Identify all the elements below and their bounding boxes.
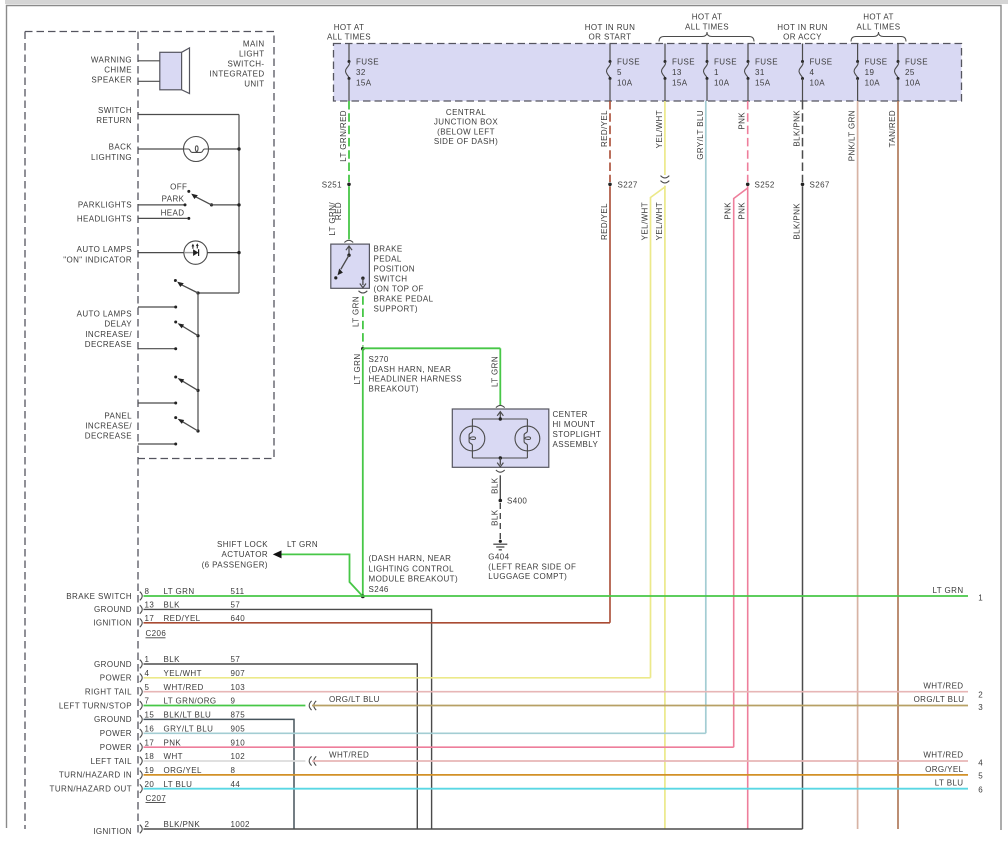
svg-text:19: 19 xyxy=(145,766,155,775)
svg-text:15: 15 xyxy=(145,711,155,720)
svg-text:AUTO LAMPS: AUTO LAMPS xyxy=(77,245,132,254)
svg-text:SWITCH: SWITCH xyxy=(98,106,132,115)
svg-text:RIGHT TAIL: RIGHT TAIL xyxy=(85,688,132,697)
page top gray strip xyxy=(0,0,1008,4)
svg-text:15A: 15A xyxy=(755,79,771,88)
svg-text:(ON TOP OF: (ON TOP OF xyxy=(374,285,424,294)
svg-text:8: 8 xyxy=(231,766,236,775)
svg-text:1: 1 xyxy=(978,594,983,603)
wire WHT/RED to connector 4 xyxy=(312,760,968,762)
connector arc out of brake pedal switch xyxy=(359,291,368,293)
svg-text:10A: 10A xyxy=(905,79,921,88)
svg-text:57: 57 xyxy=(231,601,241,610)
wire LT GRN 511 to connector 1 xyxy=(144,595,969,597)
junction xyxy=(237,203,240,206)
svg-text:HOT IN RUN: HOT IN RUN xyxy=(777,23,828,32)
fuse 31 15A xyxy=(747,44,749,62)
switch bus vertical xyxy=(197,293,199,431)
wire BLK 57 (pin 1) xyxy=(144,664,418,829)
svg-text:44: 44 xyxy=(231,780,241,789)
wire PNK branch left xyxy=(734,186,748,747)
pin 4 power xyxy=(140,674,142,683)
svg-text:4: 4 xyxy=(978,758,983,767)
junction xyxy=(237,251,240,254)
wire RED/YEL (S227 down to pin 17 C206) xyxy=(609,186,611,623)
bulb loop wiring xyxy=(472,418,527,420)
wire BLK 57 xyxy=(144,609,432,829)
wire GRY/LT BLU 905 xyxy=(144,732,706,734)
svg-text:ALL TIMES: ALL TIMES xyxy=(685,23,729,32)
svg-text:WHT/RED: WHT/RED xyxy=(923,682,963,691)
fuse 4 10A xyxy=(802,44,804,62)
svg-text:WHT/RED: WHT/RED xyxy=(923,750,963,759)
svg-text:RED/YEL: RED/YEL xyxy=(164,614,201,623)
svg-text:IGNITION: IGNITION xyxy=(93,827,132,836)
svg-text:INTEGRATED: INTEGRATED xyxy=(210,69,265,78)
svg-text:GROUND: GROUND xyxy=(94,715,132,724)
svg-text:S227: S227 xyxy=(618,180,638,189)
switch arm 0 xyxy=(196,291,199,294)
svg-text:SWITCH-: SWITCH- xyxy=(227,59,264,68)
svg-text:103: 103 xyxy=(231,683,246,692)
svg-text:FUSE: FUSE xyxy=(810,58,833,67)
wire LT BLU 44 to connector 6 xyxy=(144,788,969,790)
central junction box (fuse box) xyxy=(334,44,962,102)
wire LT GRN dashed (brake switch to S270) xyxy=(362,296,364,346)
svg-text:(DASH HARN, NEAR: (DASH HARN, NEAR xyxy=(369,365,452,374)
pin 17 ignition xyxy=(140,619,142,628)
svg-text:910: 910 xyxy=(231,738,246,747)
svg-text:IGNITION: IGNITION xyxy=(93,619,132,628)
svg-text:MODULE BREAKOUT): MODULE BREAKOUT) xyxy=(369,575,459,584)
svg-text:AUTO LAMPS: AUTO LAMPS xyxy=(77,309,132,318)
svg-text:BACK: BACK xyxy=(109,143,133,152)
svg-text:S267: S267 xyxy=(810,180,830,189)
svg-text:BLK/PNK: BLK/PNK xyxy=(793,110,802,147)
svg-text:S251: S251 xyxy=(322,180,342,189)
svg-text:HI MOUNT: HI MOUNT xyxy=(553,420,596,429)
svg-text:MAIN: MAIN xyxy=(243,39,265,48)
svg-text:FUSE: FUSE xyxy=(672,58,695,67)
svg-text:6: 6 xyxy=(978,786,983,795)
svg-text:FUSE: FUSE xyxy=(714,58,737,67)
wire BLK (stoplight to S400) xyxy=(499,475,501,499)
svg-text:31: 31 xyxy=(755,68,765,77)
svg-text:(LEFT REAR SIDE OF: (LEFT REAR SIDE OF xyxy=(488,562,576,571)
svg-text:WHT/RED: WHT/RED xyxy=(164,683,204,692)
wire RED/YEL dashed (fuse 5 to S227) xyxy=(609,101,611,182)
svg-text:DELAY: DELAY xyxy=(104,320,132,329)
svg-text:HOT AT: HOT AT xyxy=(692,13,723,22)
connector arc into stoplight assembly xyxy=(496,405,505,407)
pin 17 power xyxy=(140,743,142,752)
svg-text:LT BLU: LT BLU xyxy=(935,779,964,788)
svg-text:BLK: BLK xyxy=(490,477,499,494)
splice S270 xyxy=(361,347,365,351)
svg-text:CENTRAL: CENTRAL xyxy=(446,108,486,117)
wire BLK/PNK dashed (fuse 4 to S267) xyxy=(802,101,804,182)
svg-text:5: 5 xyxy=(617,68,622,77)
svg-text:HEADLINER HARNESS: HEADLINER HARNESS xyxy=(369,375,463,384)
svg-text:TURN/HAZARD OUT: TURN/HAZARD OUT xyxy=(50,785,132,794)
svg-text:RED/YEL: RED/YEL xyxy=(600,203,609,240)
svg-text:CHIME: CHIME xyxy=(104,66,132,75)
svg-text:BRAKE PEDAL: BRAKE PEDAL xyxy=(374,295,434,304)
svg-text:OR START: OR START xyxy=(589,33,632,42)
svg-text:YEL/WHT: YEL/WHT xyxy=(641,202,650,240)
svg-text:LIGHT: LIGHT xyxy=(239,49,265,58)
svg-text:PEDAL: PEDAL xyxy=(374,255,402,264)
svg-text:1: 1 xyxy=(145,655,150,664)
LED emission arrows xyxy=(192,245,194,249)
svg-text:LT GRN/RED: LT GRN/RED xyxy=(339,110,348,162)
wire headlights xyxy=(138,217,187,219)
wire PNK 910 xyxy=(144,746,734,748)
pin 7 left turn/stop xyxy=(140,701,142,710)
svg-text:BLK/PNK: BLK/PNK xyxy=(164,820,201,829)
switch pivot xyxy=(210,203,213,206)
svg-text:9: 9 xyxy=(231,697,236,706)
pin 15 ground xyxy=(140,715,142,724)
wire PNK straight to bottom xyxy=(747,186,749,829)
svg-text:SIDE OF DASH): SIDE OF DASH) xyxy=(434,137,498,146)
svg-text:STOPLIGHT: STOPLIGHT xyxy=(553,430,602,439)
svg-text:FUSE: FUSE xyxy=(356,58,379,67)
svg-text:SHIFT LOCK: SHIFT LOCK xyxy=(217,540,268,549)
LED auto lamps on indicator xyxy=(138,252,184,254)
splice S267 xyxy=(801,183,805,187)
svg-text:RED/YEL: RED/YEL xyxy=(600,110,609,147)
svg-text:SUPPORT): SUPPORT) xyxy=(374,305,418,314)
svg-text:BREAKOUT): BREAKOUT) xyxy=(369,384,419,393)
switch arm xyxy=(196,389,199,392)
warning chime speaker xyxy=(160,52,182,90)
svg-text:3: 3 xyxy=(978,703,983,712)
svg-text:15A: 15A xyxy=(672,79,688,88)
svg-text:BLK/LT BLU: BLK/LT BLU xyxy=(164,711,212,720)
svg-text:ORG/YEL: ORG/YEL xyxy=(164,766,203,775)
wire LT GRN/RED solid (S251 to brake pedal switch) xyxy=(348,186,350,239)
fuse 13 15A xyxy=(664,44,666,62)
svg-text:PANEL: PANEL xyxy=(104,411,132,420)
svg-text:4: 4 xyxy=(145,669,150,678)
bulb left filament loop xyxy=(469,437,475,440)
svg-text:LT GRN: LT GRN xyxy=(490,356,499,387)
pin 20 turn/hazard out xyxy=(140,784,142,793)
svg-text:8: 8 xyxy=(145,587,150,596)
svg-text:LT GRN: LT GRN xyxy=(351,296,360,327)
svg-text:POWER: POWER xyxy=(100,729,132,738)
svg-text:ORG/YEL: ORG/YEL xyxy=(925,765,964,774)
svg-text:ORG/LT BLU: ORG/LT BLU xyxy=(329,695,380,704)
svg-text:POSITION: POSITION xyxy=(374,265,415,274)
splice S227 xyxy=(608,183,612,187)
arrowhead up xyxy=(497,412,503,416)
LCM left dashed boundary xyxy=(24,32,26,830)
wire BLK dashed (S400 to ground) xyxy=(499,503,501,539)
svg-text:WHT: WHT xyxy=(164,752,183,761)
svg-text:PNK: PNK xyxy=(724,202,733,220)
arrowhead down xyxy=(360,284,366,288)
svg-text:C207: C207 xyxy=(146,794,167,803)
svg-text:5: 5 xyxy=(145,683,150,692)
switch arm xyxy=(341,255,349,269)
svg-text:10A: 10A xyxy=(617,79,633,88)
svg-text:HOT AT: HOT AT xyxy=(863,13,894,22)
svg-text:PARK: PARK xyxy=(162,195,185,204)
svg-text:GROUND: GROUND xyxy=(94,660,132,669)
fuse 1 10A xyxy=(706,44,708,62)
arrow to shift lock actuator xyxy=(273,550,282,558)
splice S251 xyxy=(347,183,351,187)
svg-text:(DASH HARN, NEAR: (DASH HARN, NEAR xyxy=(369,554,452,563)
wire PNK dashed (fuse 31 to S252) xyxy=(747,101,749,182)
svg-text:WHT/RED: WHT/RED xyxy=(329,751,369,760)
svg-text:GRY/LT BLU: GRY/LT BLU xyxy=(164,725,214,734)
svg-text:2: 2 xyxy=(978,690,983,699)
svg-text:S252: S252 xyxy=(755,180,775,189)
svg-text:875: 875 xyxy=(231,711,246,720)
wire speaker bottom lead xyxy=(138,80,160,82)
svg-text:TURN/HAZARD IN: TURN/HAZARD IN xyxy=(59,771,132,780)
svg-text:SPEAKER: SPEAKER xyxy=(91,76,132,85)
svg-text:BLK: BLK xyxy=(490,509,499,526)
svg-text:13: 13 xyxy=(145,601,155,610)
svg-text:15A: 15A xyxy=(356,79,372,88)
connector arc into brake pedal switch xyxy=(344,240,353,242)
svg-text:PARKLIGHTS: PARKLIGHTS xyxy=(78,201,132,210)
svg-text:BRAKE SWITCH: BRAKE SWITCH xyxy=(66,592,132,601)
wire ORG/YEL 8 to connector 5 xyxy=(144,774,969,776)
svg-text:18: 18 xyxy=(145,752,155,761)
svg-text:LT BLU: LT BLU xyxy=(164,780,193,789)
svg-text:BLK/PNK: BLK/PNK xyxy=(793,203,802,240)
svg-text:PNK: PNK xyxy=(164,738,182,747)
svg-text:JUNCTION BOX: JUNCTION BOX xyxy=(434,118,499,127)
svg-text:16: 16 xyxy=(145,725,155,734)
pin 5 right tail xyxy=(140,687,142,696)
bus elbow xyxy=(198,292,239,294)
splice arc xyxy=(309,756,311,765)
svg-text:HEADLIGHTS: HEADLIGHTS xyxy=(77,215,132,224)
svg-text:GROUND: GROUND xyxy=(94,605,132,614)
splice arc xyxy=(314,701,316,710)
svg-text:POWER: POWER xyxy=(100,674,132,683)
arrowhead down xyxy=(497,463,503,467)
svg-text:511: 511 xyxy=(231,587,245,596)
svg-text:LT GRN: LT GRN xyxy=(353,354,362,385)
svg-text:ACTUATOR: ACTUATOR xyxy=(222,550,268,559)
splice S400 xyxy=(499,499,503,503)
wire YEL/WHT (fuse 13 down) xyxy=(664,101,666,175)
svg-text:FUSE: FUSE xyxy=(755,58,778,67)
wire LT GRN/RED dashed (fuse 32 to S251) xyxy=(348,101,350,182)
svg-text:LEFT TURN/STOP: LEFT TURN/STOP xyxy=(59,701,132,710)
wire PNK/LT GRN (fuse 19 to bottom) xyxy=(857,101,859,829)
junction xyxy=(237,147,240,150)
switch arm xyxy=(196,429,199,432)
wire LT GRN vertical (S270 to S246) xyxy=(362,349,364,597)
svg-text:907: 907 xyxy=(231,669,246,678)
arrowhead up xyxy=(346,246,352,250)
svg-text:20: 20 xyxy=(145,780,155,789)
svg-text:LIGHTING CONTROL: LIGHTING CONTROL xyxy=(369,564,455,573)
svg-text:32: 32 xyxy=(356,68,366,77)
pin 16 power xyxy=(140,729,142,738)
contact xyxy=(334,276,337,279)
bulb right filament dip xyxy=(524,419,527,458)
svg-text:ALL TIMES: ALL TIMES xyxy=(327,33,371,42)
pin 13 ground xyxy=(140,605,142,614)
pin 18 left tail xyxy=(140,757,142,766)
svg-text:HOT AT: HOT AT xyxy=(334,23,365,32)
svg-text:C206: C206 xyxy=(146,629,167,638)
OFF contact xyxy=(187,190,190,193)
brace xyxy=(851,32,906,42)
svg-text:DECREASE: DECREASE xyxy=(85,432,132,441)
splice S252 xyxy=(746,183,750,187)
svg-text:GRY/LT BLU: GRY/LT BLU xyxy=(696,110,705,160)
svg-text:LT GRN: LT GRN xyxy=(287,540,318,549)
svg-text:CENTER: CENTER xyxy=(553,410,588,419)
svg-text:RETURN: RETURN xyxy=(96,116,132,125)
svg-text:SWITCH: SWITCH xyxy=(374,275,408,284)
svg-text:LEFT TAIL: LEFT TAIL xyxy=(91,757,133,766)
svg-text:LT GRN: LT GRN xyxy=(164,587,195,596)
svg-text:S246: S246 xyxy=(369,585,389,594)
wire BLK/PNK 1002 xyxy=(144,828,803,830)
svg-text:OFF: OFF xyxy=(170,182,187,191)
svg-text:7: 7 xyxy=(145,697,150,706)
ground G404 symbol xyxy=(493,543,507,545)
wire RED/YEL 640 xyxy=(144,622,611,624)
svg-text:OR ACCY: OR ACCY xyxy=(783,33,822,42)
svg-text:YEL/WHT: YEL/WHT xyxy=(655,202,664,240)
svg-text:YEL/WHT: YEL/WHT xyxy=(164,669,202,678)
lamp filament dip xyxy=(184,149,209,152)
wire WHT/RED 103 to connector 2 xyxy=(144,691,969,693)
svg-text:PNK: PNK xyxy=(738,202,747,220)
svg-text:"ON" INDICATOR: "ON" INDICATOR xyxy=(63,256,132,265)
svg-text:TAN/RED: TAN/RED xyxy=(888,110,897,147)
wire switch return xyxy=(138,114,239,116)
svg-text:LUGGAGE COMPT): LUGGAGE COMPT) xyxy=(488,572,567,581)
svg-text:10A: 10A xyxy=(714,79,730,88)
connector arc out of stoplight assembly xyxy=(496,470,505,472)
wire LT GRN/ORG 9 xyxy=(144,705,306,707)
fuse 19 10A xyxy=(857,44,859,62)
svg-text:BLK: BLK xyxy=(164,655,181,664)
pin 19 turn/hazard in xyxy=(140,771,142,780)
svg-text:LT GRN: LT GRN xyxy=(933,586,964,595)
svg-text:DECREASE: DECREASE xyxy=(85,340,132,349)
svg-text:17: 17 xyxy=(145,614,155,623)
bulb right filament loop xyxy=(524,437,530,440)
wire ORG/LT BLU to connector 3 xyxy=(312,705,968,707)
svg-text:4: 4 xyxy=(810,68,815,77)
svg-text:10A: 10A xyxy=(865,79,881,88)
splice arcs xyxy=(661,176,670,178)
svg-text:INCREASE/: INCREASE/ xyxy=(85,421,132,430)
svg-text:BRAKE: BRAKE xyxy=(374,245,403,254)
wire BLK/LT BLU 875 xyxy=(144,719,295,829)
fuse 25 10A xyxy=(897,44,899,62)
wire TAN/RED (fuse 25 to bottom) xyxy=(897,101,899,829)
svg-text:HEAD: HEAD xyxy=(161,208,185,217)
wire BLK/PNK (S267 to bottom) xyxy=(802,186,804,829)
svg-text:102: 102 xyxy=(231,752,246,761)
svg-text:1: 1 xyxy=(714,68,719,77)
svg-text:S400: S400 xyxy=(507,497,527,506)
wire YEL/WHT 907 xyxy=(144,677,651,679)
svg-text:LT GRN/ORG: LT GRN/ORG xyxy=(164,697,217,706)
wire YEL/WHT branch straight to bottom xyxy=(664,186,666,829)
wire WHT 102 xyxy=(144,760,306,762)
svg-text:(BELOW LEFT: (BELOW LEFT xyxy=(437,127,495,136)
bulb left filament dip xyxy=(469,419,472,458)
splice arc xyxy=(314,756,316,765)
splice S246 xyxy=(361,595,365,599)
svg-text:57: 57 xyxy=(231,655,241,664)
svg-text:ALL TIMES: ALL TIMES xyxy=(856,23,900,32)
pin 2 ignition xyxy=(140,825,142,834)
svg-text:2: 2 xyxy=(145,820,150,829)
svg-text:INCREASE/: INCREASE/ xyxy=(85,330,132,339)
pin 1 ground xyxy=(140,660,142,669)
svg-text:HOT IN RUN: HOT IN RUN xyxy=(585,23,636,32)
svg-text:13: 13 xyxy=(672,68,682,77)
switch throw stub xyxy=(138,306,176,308)
bulb left xyxy=(460,426,485,451)
wire parklights xyxy=(138,204,185,206)
svg-text:PNK: PNK xyxy=(738,112,747,130)
LCM pin-side dashed boundary xyxy=(137,32,139,837)
svg-text:LIGHTING: LIGHTING xyxy=(91,153,132,162)
svg-text:BLK: BLK xyxy=(164,601,181,610)
splice arc xyxy=(309,701,311,710)
wire GRY/LT BLU (fuse 1 down to pin 16) xyxy=(705,101,707,733)
lamp back lighting xyxy=(138,148,184,150)
switch arm xyxy=(196,334,199,337)
svg-text:1002: 1002 xyxy=(231,820,251,829)
svg-text:905: 905 xyxy=(231,725,246,734)
wire speaker top lead xyxy=(138,60,160,62)
svg-text:(6 PASSENGER): (6 PASSENGER) xyxy=(202,560,268,569)
svg-text:FUSE: FUSE xyxy=(617,58,640,67)
fuse 5 10A xyxy=(609,44,611,62)
svg-text:S270: S270 xyxy=(369,355,389,364)
bulb right xyxy=(515,426,540,451)
svg-text:RED: RED xyxy=(334,202,343,220)
switch throw stub xyxy=(138,348,176,350)
svg-text:FUSE: FUSE xyxy=(865,58,888,67)
lamp filament loop xyxy=(195,146,198,152)
fuse 32 15A xyxy=(348,44,350,62)
brace xyxy=(659,32,754,42)
svg-text:WARNING: WARNING xyxy=(91,56,132,65)
center hi mount stoplight assembly box xyxy=(452,409,549,467)
svg-text:UNIT: UNIT xyxy=(244,79,264,88)
svg-text:25: 25 xyxy=(905,68,915,77)
wire LT GRN (S270 to stoplight) xyxy=(363,347,501,349)
svg-text:17: 17 xyxy=(145,738,155,747)
svg-text:640: 640 xyxy=(231,614,246,623)
svg-text:YEL/WHT: YEL/WHT xyxy=(655,110,664,148)
main light switch integrated unit dashed box xyxy=(25,32,274,459)
wire YEL/WHT branch left xyxy=(651,186,665,678)
svg-text:19: 19 xyxy=(865,68,875,77)
switch throw stub xyxy=(138,402,176,404)
